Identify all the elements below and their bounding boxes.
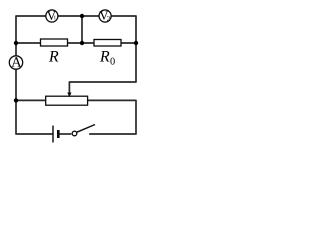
rheostat wiper arrowhead [67,93,71,98]
node dot (82,43) [80,41,84,45]
wire V1 to V2 with node at x=82 [58,15,99,17]
wire V2 to top-right corner down to node at (136,43) [111,16,136,43]
wire right vertical down to wiper lead [69,43,136,93]
wire R0 to right node [121,42,136,44]
node dot (82,16) [80,14,84,18]
label R [49,51,59,61]
resistor R0 [94,40,121,47]
switch lever [77,125,95,133]
node dot (136,43) [134,41,138,45]
wire left node to resistor R [16,42,41,44]
wire left vertical through ammeter region [15,43,17,56]
resistor R [41,39,68,46]
battery cell: short thick plate [57,130,60,138]
label R0 [100,51,110,61]
wire battery to switch [59,133,71,135]
voltmeter V1 [46,10,58,22]
wire top-left corner to V1 [16,16,46,45]
node dot (16,100) [14,98,18,102]
node dot (16,43) [14,41,18,45]
wire rheostat branch left [16,99,46,101]
battery cell: long plate [52,126,54,143]
wire R to R0 [68,42,95,44]
wire rheostat right to bottom-right corner [88,100,136,134]
wire ammeter to bottom-left [16,69,53,134]
ammeter A [9,56,22,69]
switch pivot circle [72,131,77,136]
voltmeter V2 [99,10,111,22]
rheostat (potentiometer) box [46,96,88,105]
wire middle vertical link x=82 [81,16,83,43]
